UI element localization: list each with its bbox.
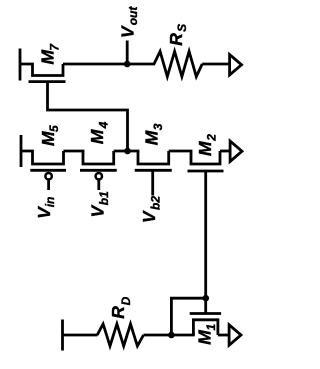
svg-text:2: 2 bbox=[204, 134, 218, 142]
wire M3 to M2 bbox=[169, 150, 193, 153]
transistor M2 bbox=[188, 151, 224, 171]
svg-text:5: 5 bbox=[47, 125, 61, 132]
wire M7 gate to node bbox=[48, 82, 128, 152]
transistor M1 bbox=[190, 314, 221, 336]
svg-text:V: V bbox=[88, 205, 108, 218]
transistor M4 bbox=[80, 151, 117, 190]
wire RD to M1 bbox=[144, 334, 195, 337]
resistor RD bbox=[97, 324, 143, 346]
svg-text:M: M bbox=[38, 131, 58, 146]
svg-text:S: S bbox=[175, 24, 189, 32]
svg-text:4: 4 bbox=[96, 121, 110, 129]
svg-text:out: out bbox=[126, 6, 140, 26]
node Vout junction dot bbox=[124, 61, 131, 68]
transistor M3 bbox=[135, 151, 172, 196]
terminal output mid (triangle) bbox=[230, 141, 242, 161]
transistor M7 bbox=[20, 49, 66, 82]
wire M2 to terminal bbox=[220, 150, 230, 153]
svg-text:b1: b1 bbox=[97, 191, 111, 205]
svg-text:V: V bbox=[118, 25, 138, 38]
svg-text:M: M bbox=[195, 330, 215, 345]
wire M5 to M4 bbox=[64, 150, 85, 153]
svg-text:M: M bbox=[141, 130, 161, 145]
svg-text:M: M bbox=[195, 141, 215, 156]
svg-text:3: 3 bbox=[151, 123, 165, 130]
transistor M5 bbox=[21, 135, 66, 190]
wire M2 gate down to M1 bbox=[204, 171, 207, 314]
wire RS to terminal bbox=[202, 63, 229, 66]
wire Vout rail bbox=[63, 63, 155, 66]
resistor RS bbox=[154, 51, 202, 76]
wire M4 to M3 bbox=[114, 150, 140, 153]
svg-text:1: 1 bbox=[204, 324, 218, 331]
node M2 gate / M1 loop junction dot bbox=[203, 295, 210, 302]
svg-text:b2: b2 bbox=[148, 196, 162, 210]
wire M1 to terminal bbox=[218, 334, 229, 337]
wire Vout stub bbox=[126, 41, 129, 65]
wire tick to RD bbox=[63, 334, 98, 337]
wire M1 gate loop bbox=[171, 298, 205, 335]
node RD-M1 junction dot bbox=[168, 332, 175, 339]
svg-text:R: R bbox=[108, 306, 128, 319]
terminal output bottom (triangle) bbox=[229, 325, 241, 345]
svg-text:V: V bbox=[139, 210, 159, 223]
terminal input bottom left (tick) bbox=[61, 320, 64, 351]
svg-text:M: M bbox=[87, 129, 107, 144]
svg-text:in: in bbox=[43, 197, 57, 208]
svg-text:R: R bbox=[166, 33, 186, 46]
node M4-M3 junction dot bbox=[124, 148, 131, 155]
terminal output top (triangle) bbox=[230, 55, 242, 75]
svg-text:D: D bbox=[119, 296, 133, 305]
